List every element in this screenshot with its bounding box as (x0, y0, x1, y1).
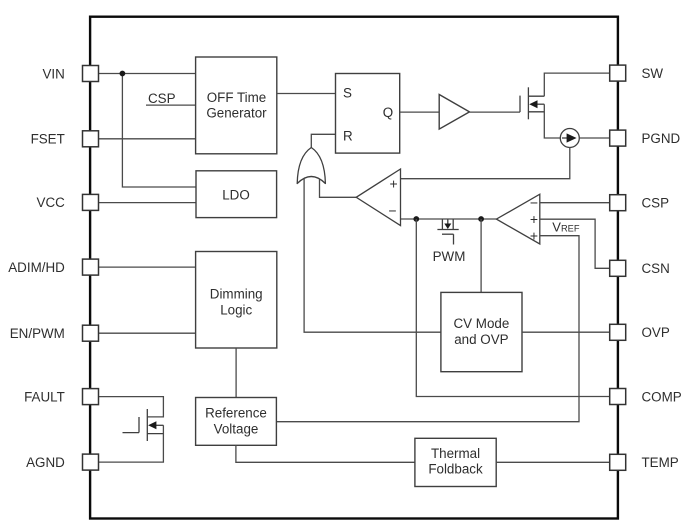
pin VCC (83, 194, 99, 210)
gate lead (123, 432, 140, 434)
wire FAULT to Q3 drain (95, 397, 163, 417)
source stub (528, 111, 544, 113)
error amp U5 (3-input) (496, 194, 539, 244)
wire ADIM/HD to Dimming Logic (95, 266, 196, 268)
channel bar (437, 229, 458, 231)
wire PWM node to COMP (416, 219, 612, 397)
pin AGND (83, 454, 99, 470)
pin FSET (83, 131, 99, 147)
latch U1 (SR) (336, 74, 400, 154)
svg-text:OFF Time: OFF Time (207, 90, 267, 105)
wire buffer to Q1 gate (470, 111, 521, 113)
svg-text:+: + (530, 227, 538, 243)
wire OR gate output to latch R (311, 134, 335, 148)
svg-text:−: − (388, 203, 396, 219)
svg-text:TEMP: TEMP (642, 455, 679, 470)
pin VIN (83, 66, 99, 82)
svg-text:Reference: Reference (205, 406, 267, 421)
wire latch Q to buffer (400, 111, 440, 113)
svg-text:Dimming: Dimming (210, 286, 263, 301)
svg-text:FAULT: FAULT (24, 389, 65, 404)
wire current sensor to PGND (579, 137, 612, 139)
svg-text:COMP: COMP (642, 389, 682, 404)
svg-text:VIN: VIN (42, 66, 64, 81)
svg-text:CSP: CSP (642, 196, 670, 211)
svg-text:LDO: LDO (222, 187, 250, 202)
svg-text:Q: Q (383, 105, 393, 120)
body line (537, 103, 545, 105)
wire CV Mode to OVP pin (522, 331, 612, 333)
wire OR gate left input from CV Mode (304, 179, 441, 333)
node VIN junction (120, 71, 126, 77)
gate bar (519, 96, 521, 113)
svg-text:R: R (343, 128, 353, 143)
block CV Mode and OVP (441, 292, 522, 371)
node PWM left junction (413, 216, 419, 222)
svg-text:Foldback: Foldback (428, 462, 483, 477)
block OFF Time Generator (196, 57, 277, 154)
pin OVP (610, 324, 626, 340)
pin PGND (610, 130, 626, 146)
gate bar (442, 233, 454, 235)
pin ADIM/HD (83, 259, 99, 275)
channel bar (527, 87, 529, 119)
pin CSN (610, 260, 626, 276)
pin COMP (610, 389, 626, 405)
channel bar (146, 409, 148, 441)
gate bar (138, 417, 140, 433)
svg-text:Generator: Generator (206, 106, 267, 121)
svg-text:SW: SW (642, 66, 664, 81)
net label CSP (OFF Time Generator input) (146, 104, 196, 106)
wire Thermal Foldback to TEMP (496, 461, 612, 463)
block Dimming Logic (196, 252, 277, 349)
svg-text:Thermal: Thermal (431, 446, 480, 461)
source stub (452, 219, 454, 230)
wire PWM node to CV Mode top (480, 219, 482, 292)
source stub (147, 433, 163, 435)
svg-text:CSP: CSP (148, 91, 176, 106)
block LDO (196, 171, 277, 218)
wire U5 + input to CSN (540, 219, 612, 268)
svg-text:+: + (530, 211, 538, 227)
node PWM right junction (478, 216, 484, 222)
svg-text:OVP: OVP (642, 325, 670, 340)
block Reference Voltage (196, 398, 277, 446)
svg-text:+: + (390, 176, 398, 192)
OR gate U4 (297, 148, 325, 184)
body arrow (148, 421, 156, 429)
drain stub (528, 95, 544, 97)
wire VCC to LDO (95, 202, 196, 204)
IC package outline (90, 17, 618, 519)
gate lead (453, 234, 455, 244)
transistor Q1 (power MOSFET) (520, 87, 544, 119)
wire Dimming Logic to Reference Voltage (235, 348, 237, 398)
svg-text:PWM: PWM (433, 249, 466, 264)
svg-text:ADIM/HD: ADIM/HD (8, 260, 65, 275)
pin FAULT (83, 389, 99, 405)
wire OFF Time Generator to latch S (277, 93, 336, 95)
wire U5 - input to CSP (540, 202, 612, 204)
comparator U3 (PWM comparator) (356, 169, 400, 226)
wire Q1 source to current sensor (544, 104, 560, 138)
wire EN/PWM to Dimming Logic (95, 332, 196, 334)
buffer U2 (439, 95, 469, 130)
current sensor CS1 (560, 129, 579, 148)
svg-text:FSET: FSET (31, 132, 65, 147)
wire VIN to OFF Time Generator (95, 73, 196, 75)
wire current sense feedback to comparator U3 + (401, 148, 570, 179)
svg-text:VCC: VCC (37, 195, 66, 210)
transistor Q2 (PWM dimming MOSFET) (433, 219, 466, 264)
svg-text:CSN: CSN (642, 261, 670, 276)
pin TEMP (610, 454, 626, 470)
svg-text:AGND: AGND (26, 455, 65, 470)
pin EN/PWM (83, 325, 99, 341)
wire Reference Voltage to Thermal Foldback (236, 445, 415, 462)
wire comparator U3 - net (PWM node) (401, 218, 497, 220)
svg-text:Voltage: Voltage (214, 422, 259, 437)
wire Q1 drain to SW (544, 73, 612, 96)
block Thermal Foldback (415, 438, 496, 486)
svg-text:−: − (530, 195, 538, 211)
body line (156, 424, 164, 426)
pin SW (610, 65, 626, 81)
wire VIN branch to LDO (122, 74, 196, 188)
svg-text:and OVP: and OVP (454, 332, 508, 347)
svg-text:PGND: PGND (642, 131, 681, 146)
body arrow (529, 100, 537, 108)
svg-text:CV Mode: CV Mode (453, 316, 509, 331)
pin CSP (610, 195, 626, 211)
wire U5 + input to VREF from Reference Voltage (276, 236, 579, 422)
wire Q3 source to AGND (95, 425, 163, 462)
svg-text:S: S (343, 86, 352, 101)
transistor Q3 (fault MOSFET) (123, 409, 164, 441)
body arrow (447, 219, 449, 225)
wire comparator U3 output to OR gate (320, 179, 357, 197)
drain stub (441, 219, 443, 230)
svg-text:EN/PWM: EN/PWM (10, 326, 65, 341)
wire FSET to OFF Time Generator (95, 138, 196, 140)
svg-text:Logic: Logic (220, 302, 252, 317)
